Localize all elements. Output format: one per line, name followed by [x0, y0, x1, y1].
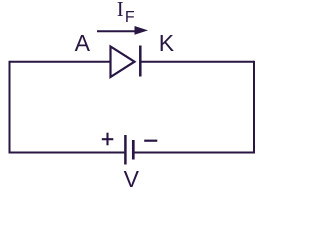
svg-text:A: A	[75, 30, 91, 56]
wire bottom-right segment	[134, 152, 256, 154]
minus sign	[144, 140, 157, 142]
diode D1 triangle (anode)	[111, 47, 135, 78]
svg-text:V: V	[124, 166, 140, 191]
battery V negative short plate	[132, 140, 135, 160]
plus sign	[102, 133, 114, 146]
svg-text:I: I	[117, 0, 124, 21]
current arrow IF shaft	[97, 30, 137, 32]
wire right segment	[253, 61, 255, 154]
battery V positive long plate	[124, 135, 127, 165]
current arrow IF head	[135, 26, 149, 35]
svg-text:F: F	[125, 9, 135, 26]
wire bottom-left segment	[9, 152, 126, 154]
wire top-right segment	[141, 61, 255, 63]
svg-text:K: K	[159, 30, 175, 56]
diode D1 cathode bar	[139, 46, 142, 77]
wire left segment	[9, 61, 11, 154]
wire top-left segment	[10, 61, 111, 63]
